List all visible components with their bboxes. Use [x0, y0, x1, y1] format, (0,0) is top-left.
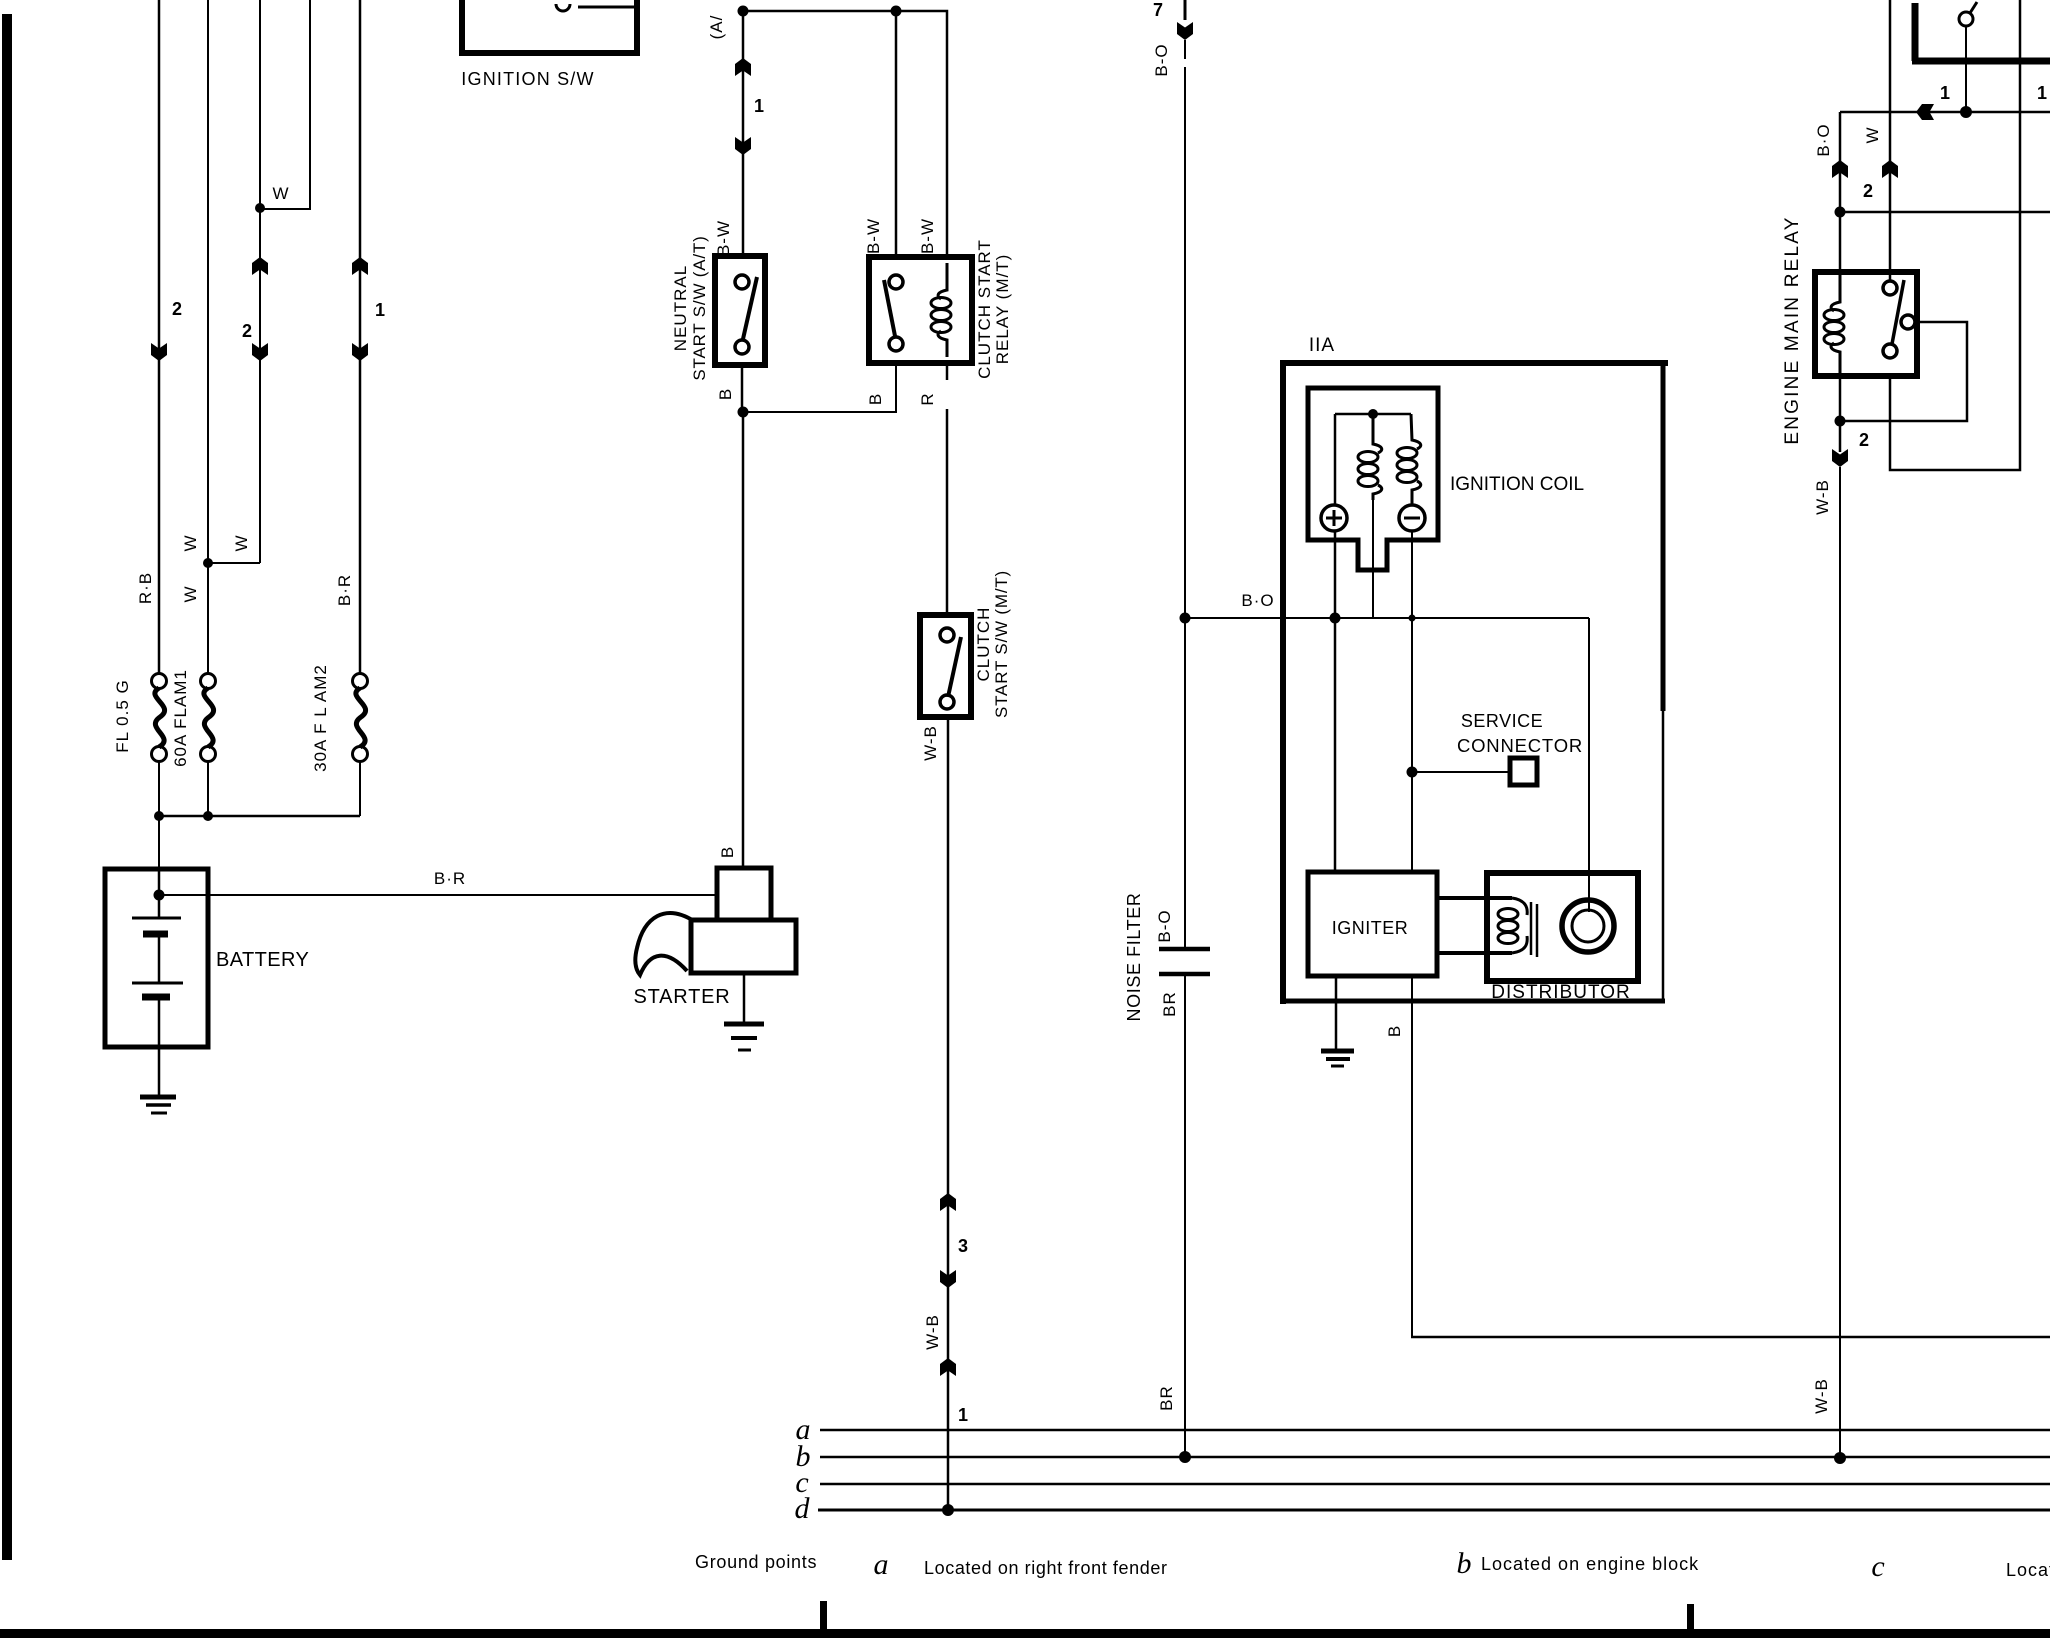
wire B-O horizontal to coil and distributor — [1185, 617, 1589, 619]
svg-text:B-W: B-W — [918, 218, 937, 254]
svg-text:NOISE FILTER: NOISE FILTER — [1124, 893, 1144, 1022]
fuse 30A FL AM2 — [353, 674, 368, 762]
svg-text:2: 2 — [172, 299, 182, 319]
wire from top right switch — [1965, 26, 1967, 112]
wire B-O to engine main relay coil — [1839, 112, 1842, 272]
relay CLUTCH START RELAY (M/T) — [869, 257, 972, 363]
svg-text:W-B: W-B — [1812, 1378, 1831, 1414]
wire BR noise filter to ground point b — [1184, 976, 1186, 1457]
svg-text:BR: BR — [1157, 1385, 1176, 1411]
svg-text:IGNITER: IGNITER — [1332, 918, 1409, 938]
node W-B junction under relay — [1835, 416, 1846, 427]
svg-text:1: 1 — [754, 96, 764, 116]
svg-text:W: W — [1863, 126, 1882, 143]
wire: fuse output bus — [159, 815, 360, 818]
svg-text:W: W — [272, 184, 289, 203]
svg-text:a: a — [874, 1548, 889, 1581]
svg-text:B·R: B·R — [434, 869, 466, 888]
svg-text:c: c — [1871, 1550, 1884, 1583]
wire B-R battery to starter — [159, 894, 717, 896]
wire (A/ start feed from ignition switch — [742, 11, 745, 256]
igniter IGNITER — [1308, 872, 1437, 976]
svg-text:W-B: W-B — [921, 725, 940, 761]
fuse FL 0.5 G — [152, 674, 167, 762]
svg-text:START S/W (M/T): START S/W (M/T) — [992, 570, 1011, 718]
wire: coil - terminal down to igniter — [1411, 531, 1413, 872]
svg-text:W-B: W-B — [923, 1314, 942, 1350]
wire W to relay switch — [1889, 0, 1892, 281]
svg-text:1: 1 — [1940, 83, 1950, 103]
relay ENGINE MAIN RELAY — [1815, 272, 1917, 376]
svg-text:3: 3 — [958, 1236, 968, 1256]
fuse 60A FL AM1 — [201, 674, 216, 762]
svg-text:CONNECTOR: CONNECTOR — [1457, 735, 1583, 756]
svg-text:R: R — [918, 392, 937, 405]
wire B-W to relay switch — [895, 11, 898, 257]
ground bus line a — [820, 1429, 2050, 1432]
coil primary winding — [1358, 414, 1382, 500]
svg-text:SERVICE: SERVICE — [1461, 711, 1543, 731]
svg-text:RELAY (M/T): RELAY (M/T) — [993, 254, 1012, 365]
svg-text:1: 1 — [958, 1405, 968, 1425]
svg-text:1: 1 — [375, 300, 385, 320]
svg-text:B: B — [866, 393, 885, 405]
svg-text:CLUTCH: CLUTCH — [974, 607, 993, 682]
wire: coil secondary lead down — [1372, 494, 1374, 618]
wire R below relay coil — [946, 363, 949, 380]
ground bus line d — [818, 1509, 2050, 1512]
svg-text:B: B — [718, 846, 737, 858]
svg-text:2: 2 — [242, 321, 252, 341]
ground (igniter) — [1335, 976, 1338, 1050]
node: fuse bus junction 1 — [154, 811, 164, 821]
pickup coil — [1498, 898, 1527, 953]
node B-O at coil + terminal — [1330, 613, 1341, 624]
svg-text:B-W: B-W — [864, 218, 883, 254]
svg-text:W: W — [181, 534, 200, 551]
node at coil - wire crossing — [1409, 615, 1416, 622]
ground bus line b — [820, 1456, 2050, 1459]
svg-text:FL 0.5 G: FL 0.5 G — [113, 679, 132, 753]
svg-text:(A/: (A/ — [707, 15, 726, 40]
node B junction — [738, 407, 749, 418]
relay box top right corner component — [1912, 3, 1919, 61]
svg-text:d: d — [795, 1492, 811, 1525]
IIA assembly box — [1280, 360, 1668, 366]
wire B below neutral switch — [741, 365, 744, 412]
wire: top bus to clutch start relay — [743, 11, 947, 257]
svg-text:B-O: B-O — [1152, 43, 1171, 76]
svg-text:DISTRIBUTOR: DISTRIBUTOR — [1491, 982, 1630, 1003]
svg-text:b: b — [1457, 1547, 1472, 1580]
node B-O junction at noise filter — [1180, 613, 1191, 624]
wire R-B from top (fusible link feed) — [158, 0, 161, 674]
svg-text:ENGINE MAIN RELAY: ENGINE MAIN RELAY — [1782, 215, 1803, 444]
svg-text:STARTER: STARTER — [633, 986, 730, 1008]
node W junction wires 2+3 — [203, 558, 213, 568]
svg-text:B: B — [716, 388, 735, 400]
wire B-O horizontal to page edge — [1840, 211, 2050, 214]
wire W (third vertical) — [259, 0, 261, 563]
distributor cap — [1562, 900, 1614, 952]
coil + terminal — [1321, 505, 1347, 531]
wire B to starter solenoid — [742, 412, 745, 868]
svg-text:1: 1 — [2037, 83, 2047, 103]
wire W feed (second vertical) — [207, 0, 209, 674]
svg-text:IGNITION COIL: IGNITION COIL — [1450, 474, 1584, 495]
wire relay lower contact to top edge — [1890, 0, 2020, 470]
wire relay common contact loop — [1840, 322, 1967, 421]
svg-text:B-O: B-O — [1155, 909, 1174, 942]
wire: fuse bottoms to bus — [158, 761, 160, 869]
switch NEUTRAL START S/W (A/T) — [715, 256, 765, 365]
svg-text:B·O: B·O — [1241, 591, 1274, 610]
svg-text:B·O: B·O — [1814, 123, 1833, 156]
wire W-B from clutch switch to ground point d — [947, 717, 950, 1510]
wire: third vertical joins second at W node — [208, 562, 260, 564]
svg-text:BATTERY: BATTERY — [216, 949, 309, 971]
wire B from igniter — [1411, 976, 1413, 1338]
service connector SERVICE CONNECTOR — [1407, 767, 1418, 778]
svg-text:2: 2 — [1859, 430, 1869, 450]
distributor DISTRIBUTOR — [1487, 873, 1638, 981]
svg-text:30A F L AM2: 30A F L AM2 — [311, 664, 330, 772]
svg-text:CLUTCH START: CLUTCH START — [975, 239, 994, 379]
svg-text:Located on engine block: Located on engine block — [1481, 1554, 1699, 1574]
svg-text:W-B: W-B — [1813, 479, 1832, 515]
coil secondary winding — [1397, 414, 1421, 505]
ground (starter) — [743, 973, 746, 1023]
node: W junction of wires 3+4 — [255, 203, 265, 213]
svg-text:7: 7 — [1153, 0, 1163, 20]
svg-text:Located on right front fender: Located on right front fender — [924, 1558, 1168, 1578]
switch CLUTCH START S/W (M/T) — [920, 615, 971, 717]
svg-text:B: B — [1385, 1025, 1404, 1037]
ground (battery) — [140, 1095, 176, 1100]
pickup core — [1530, 902, 1533, 955]
coil - terminal — [1399, 505, 1425, 531]
wire B junction to relay output — [743, 363, 896, 412]
svg-text:IGNITION S/W: IGNITION S/W — [461, 69, 594, 89]
wires igniter to pickup coil — [1437, 896, 1512, 900]
wire: coil + terminal down to igniter — [1334, 531, 1337, 872]
svg-text:60A FLAM1: 60A FLAM1 — [171, 669, 190, 767]
battery BATTERY — [105, 869, 208, 1047]
svg-text:Ground points: Ground points — [695, 1552, 817, 1572]
svg-text:W: W — [181, 585, 200, 602]
wire W-B from relay coil to ground point b — [1839, 376, 1842, 452]
ignition switch IGNITION S/W — [462, 0, 637, 53]
starter STARTER — [717, 868, 771, 920]
ground bus line c — [820, 1483, 2050, 1486]
svg-text:START S/W (A/T): START S/W (A/T) — [690, 235, 709, 380]
svg-text:B-W: B-W — [714, 220, 733, 256]
node: fuse bus junction 2 — [203, 811, 213, 821]
svg-text:BR: BR — [1160, 991, 1179, 1017]
svg-text:Locat: Locat — [2006, 1560, 2050, 1580]
svg-text:R·B: R·B — [136, 572, 155, 604]
ignition coil IGNITION COIL — [1308, 388, 1438, 570]
svg-text:IIA: IIA — [1309, 335, 1335, 356]
svg-text:2: 2 — [1863, 181, 1873, 201]
wire W (fourth vertical, joins third) — [260, 0, 310, 209]
svg-text:B·R: B·R — [335, 574, 354, 606]
node junction on 1-wire — [1960, 106, 1972, 118]
wire 1 horizontal with connector arrow — [1840, 111, 2050, 114]
wire B-R feed (fifth vertical) — [359, 0, 362, 674]
svg-text:NEUTRAL: NEUTRAL — [671, 265, 690, 351]
wire secondary high tension lead — [1588, 618, 1590, 912]
svg-text:W: W — [232, 534, 251, 551]
